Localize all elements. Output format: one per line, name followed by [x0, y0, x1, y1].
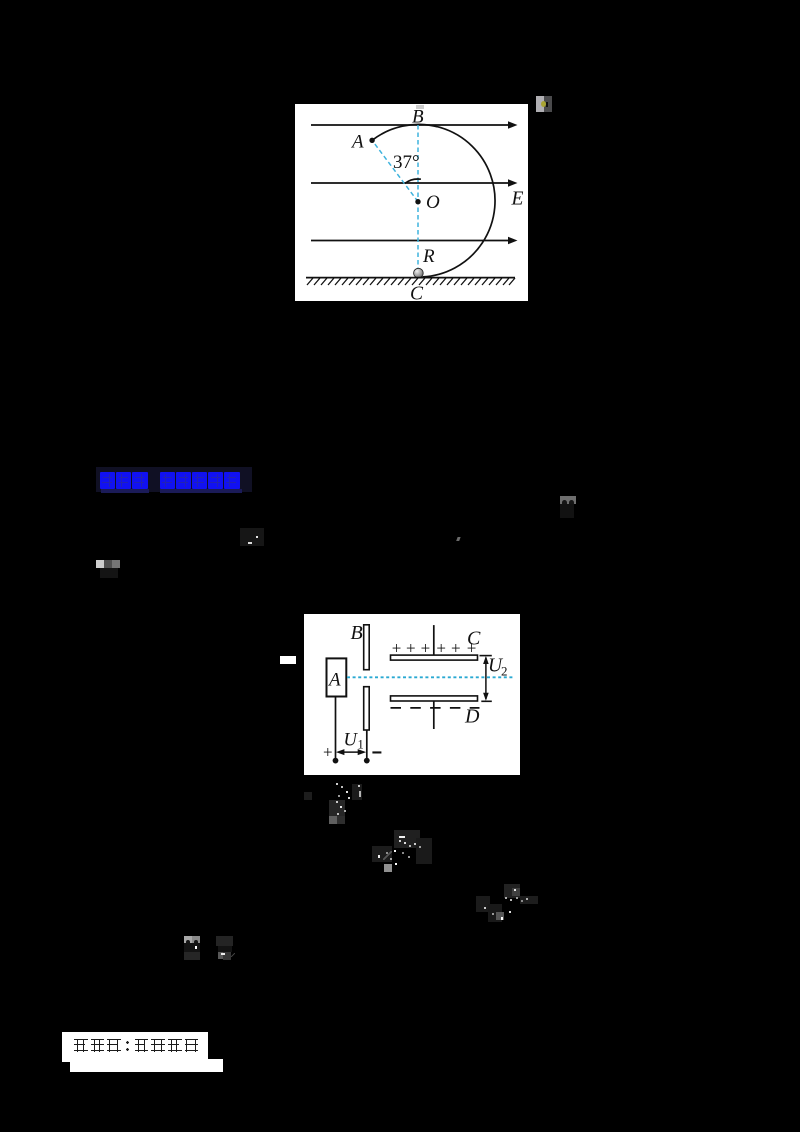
small image icon top right of figure 1 [536, 96, 552, 112]
ground hatching [307, 278, 515, 285]
blue heading placeholder (pseudo CJK glyphs) [100, 472, 241, 489]
dashed negative row [391, 707, 480, 709]
dashed line B-C vertical [417, 125, 419, 268]
plate B top bar [364, 625, 370, 670]
plate B bottom bar [364, 687, 370, 730]
svg-text:+: + [406, 638, 416, 657]
point O [415, 199, 420, 204]
faint heading backing [96, 467, 252, 492]
svg-text:A: A [327, 670, 341, 691]
svg-text:B: B [412, 107, 424, 128]
U1 double arrow [339, 751, 365, 753]
svg-text:+: + [436, 638, 446, 657]
U2 ticks [480, 655, 492, 657]
wire A to + terminal [335, 697, 337, 761]
label minus [372, 751, 381, 753]
field line 2 [311, 179, 518, 187]
svg-text:D: D [464, 706, 480, 728]
ball at C [414, 268, 424, 278]
heading underline remnants [101, 489, 149, 493]
svg-text:B: B [351, 622, 363, 644]
wire up from plate C [433, 625, 435, 655]
ground line [306, 277, 515, 279]
dashed line O-A [372, 140, 418, 201]
svg-text:O: O [426, 192, 440, 213]
formula fragment F4 [456, 537, 460, 541]
white dash left of figure 2 [280, 656, 296, 664]
svg-text:R: R [422, 246, 435, 267]
formula fragment F2 (left margin squares) [96, 560, 104, 568]
svg-text:+: + [451, 638, 461, 657]
figure 2: accelerating and deflecting fields [304, 614, 520, 775]
formula cluster F7 [476, 896, 490, 912]
beam dotted line [347, 676, 514, 678]
electron source A box [327, 658, 347, 696]
svg-text:2: 2 [501, 664, 508, 679]
svg-text:E: E [511, 189, 524, 210]
circle arc A-B-C [372, 124, 495, 277]
formula cluster F8 [184, 936, 192, 943]
top deflect plate C [391, 655, 478, 660]
plus charges row [392, 638, 477, 657]
bottom watermark box 2 [70, 1059, 223, 1072]
svg-text:37°: 37° [393, 152, 420, 173]
svg-text:+: + [323, 743, 333, 762]
field line 1 [311, 121, 518, 129]
angle arc 37 [405, 179, 421, 183]
- terminal dot [364, 758, 370, 764]
wire B to - terminal [366, 730, 368, 761]
U2 double arrow vertical [485, 658, 487, 700]
formula fragment F1 (right of heading line) [560, 496, 576, 504]
bottom watermark box 1 [62, 1032, 208, 1062]
+ terminal dot [333, 758, 339, 764]
figure 1: charged ball circular motion in field E [295, 104, 528, 301]
gray drag handle on figure 1 top edge [416, 105, 424, 109]
bottom deflect plate D [391, 696, 478, 701]
formula cluster F6 [372, 846, 392, 862]
field line 3 [311, 237, 518, 245]
formula fragment F3 [240, 528, 264, 546]
formula cluster F5 [304, 792, 312, 800]
svg-text:C: C [467, 628, 481, 650]
wire down from plate D [433, 701, 435, 729]
svg-text:A: A [350, 132, 364, 153]
svg-text:C: C [410, 284, 424, 302]
svg-text:U: U [344, 731, 359, 751]
svg-text:+: + [421, 638, 431, 657]
svg-text:+: + [392, 638, 402, 657]
bottom watermark text [74, 1039, 201, 1053]
point A [369, 138, 374, 143]
